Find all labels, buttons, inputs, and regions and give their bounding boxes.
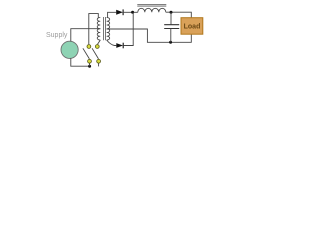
svg-text:Load: Load <box>184 24 201 31</box>
junction dot capacitor bottom <box>169 41 172 44</box>
capacitor C1 <box>170 12 172 24</box>
wire T4 stub <box>98 64 100 67</box>
wire primary bottom lead to T2 <box>98 40 101 44</box>
wire supply top lead <box>71 29 101 42</box>
wire primary top hook <box>89 14 99 45</box>
inductor L1 <box>138 8 166 12</box>
svg-text:Supply: Supply <box>46 32 68 39</box>
wire top rail to load <box>166 12 192 18</box>
wire D1 cathode to node A <box>123 11 138 13</box>
wire T3 stub <box>89 64 91 67</box>
switch terminal T1 <box>87 45 91 49</box>
wire D2 cathode up to node A <box>123 12 133 45</box>
transformer core <box>104 17 106 40</box>
switch terminal T4 <box>97 59 101 63</box>
wire secondary center tap to bottom-mid rail <box>107 29 192 42</box>
wire secondary bottom lead to D2 <box>107 40 117 46</box>
load box <box>181 18 203 35</box>
node A junction dot <box>131 11 134 14</box>
wire secondary top lead <box>108 12 117 17</box>
switch terminal T2 <box>95 45 99 49</box>
junction dot bottom rail <box>88 65 91 68</box>
wire supply bottom lead + bottom rail <box>71 58 91 66</box>
diode D1 <box>116 10 123 15</box>
AC source (supply circle) <box>61 41 78 58</box>
switch blade 1 <box>83 48 90 59</box>
wire capacitor bottom lead <box>170 29 172 43</box>
inductor core lines <box>137 5 166 6</box>
switch terminal T3 <box>88 59 92 63</box>
transformer secondary winding <box>107 18 110 41</box>
transformer T1 primary winding <box>97 18 100 41</box>
diode D2 <box>116 43 123 48</box>
switch blade 2 <box>92 48 98 59</box>
junction dot capacitor top <box>170 11 173 14</box>
